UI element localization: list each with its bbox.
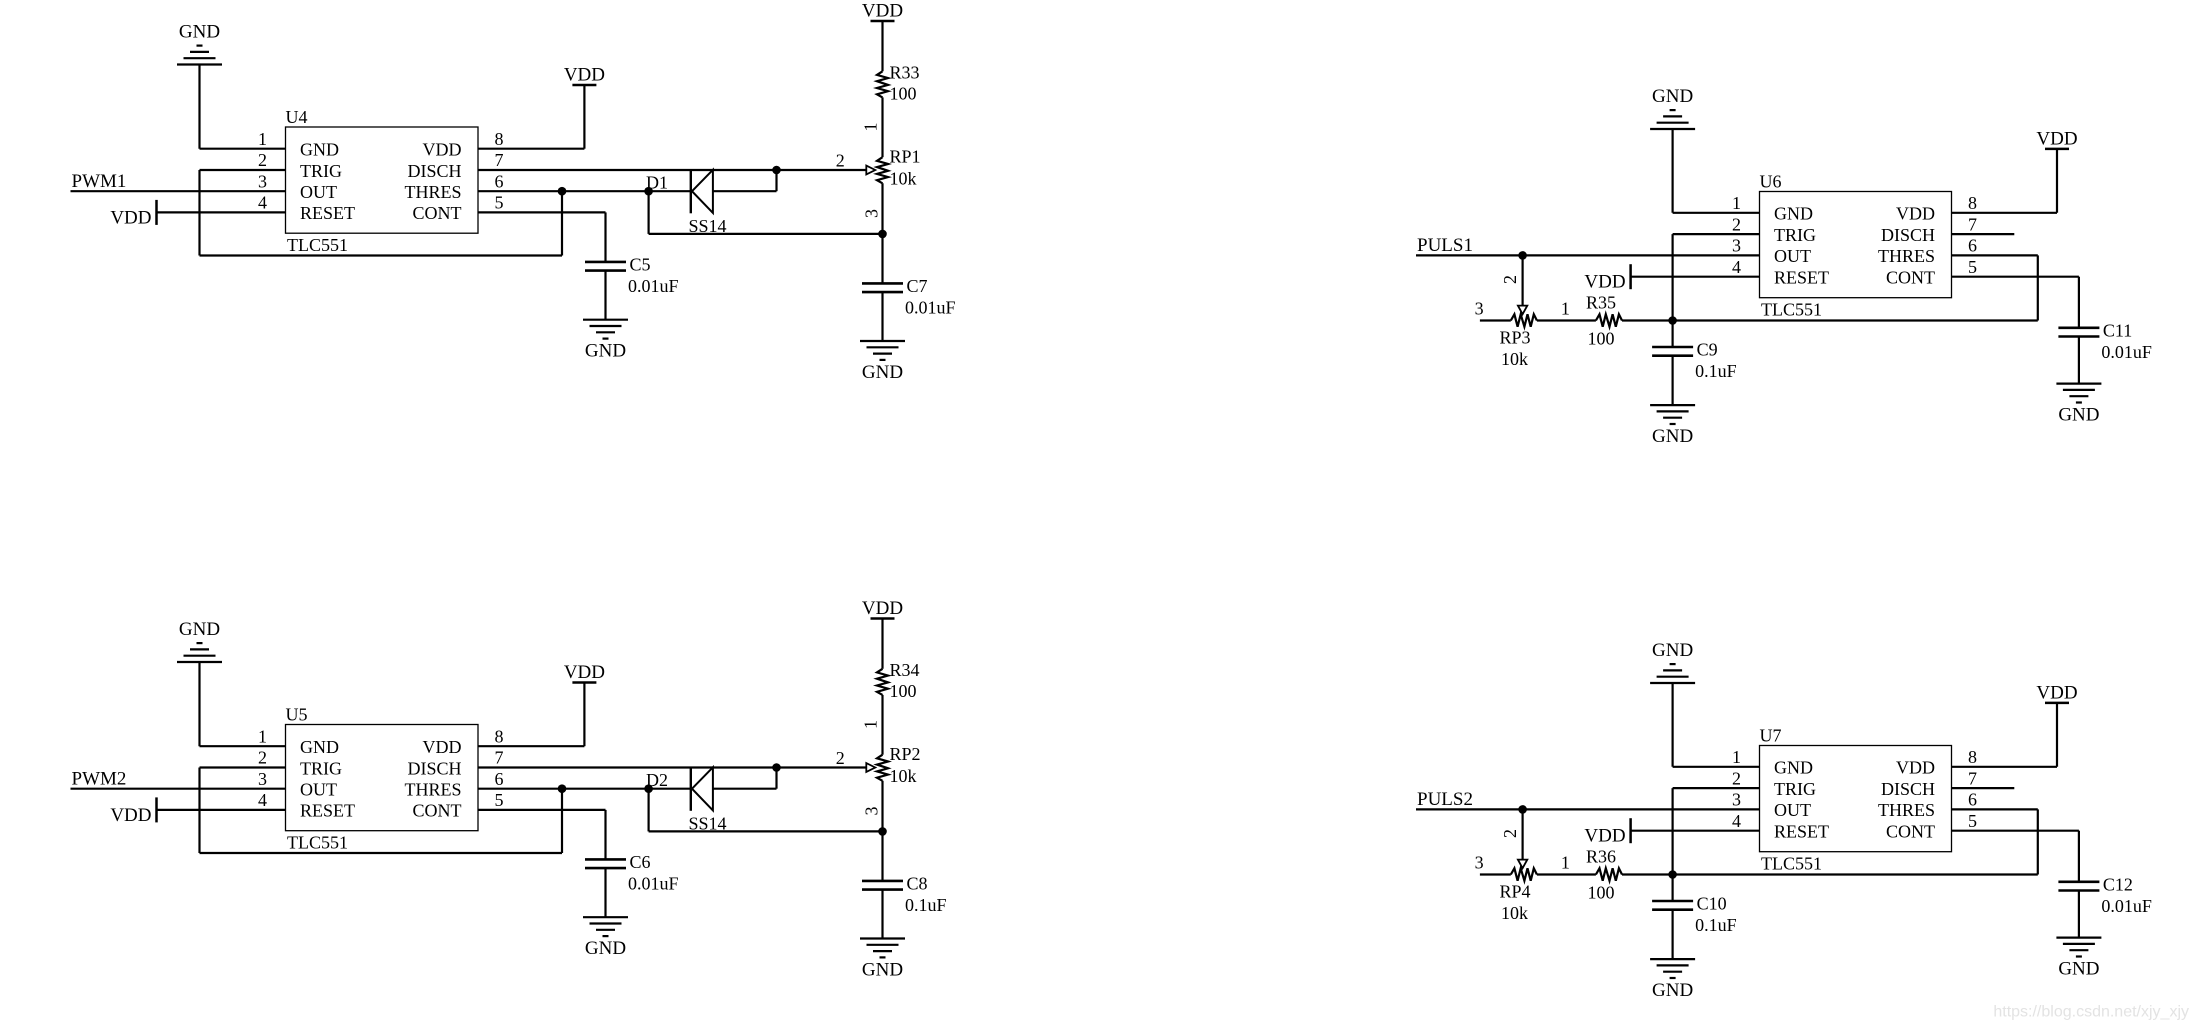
svg-text:PWM2: PWM2 <box>72 769 127 790</box>
wire RP4 to R36 <box>1537 873 1596 875</box>
junction DISCH node <box>772 166 781 175</box>
potentiometer RP2 10k <box>877 744 921 786</box>
wire RP1 to C7 <box>881 183 883 283</box>
wire RC node to C9 <box>1671 321 1673 348</box>
svg-text:THRES: THRES <box>1878 246 1935 266</box>
svg-text:RESET: RESET <box>1774 268 1829 288</box>
wire U5 VDD pin 8 <box>478 745 584 747</box>
svg-text:0.01uF: 0.01uF <box>628 276 679 296</box>
wire R36 to THRES loop <box>1622 873 2038 875</box>
wire U7 DISCH pin 7 stub <box>1952 787 2015 789</box>
svg-text:0.1uF: 0.1uF <box>1695 361 1737 381</box>
resistor R34 100 <box>877 660 920 701</box>
power VDD (at U6 RESET) <box>1584 264 1630 293</box>
svg-text:3: 3 <box>862 209 882 218</box>
svg-text:TRIG: TRIG <box>1774 779 1816 799</box>
svg-text:1: 1 <box>258 129 267 149</box>
svg-text:8: 8 <box>1968 747 1977 767</box>
wire TRIG loop vertical <box>198 768 200 854</box>
svg-text:VDD: VDD <box>564 662 605 683</box>
svg-text:GND: GND <box>585 938 626 959</box>
svg-text:GND: GND <box>2058 959 2099 980</box>
svg-text:GND: GND <box>585 341 626 362</box>
svg-text:RESET: RESET <box>1774 822 1829 842</box>
svg-text:GND: GND <box>179 619 220 640</box>
svg-text:1: 1 <box>1561 298 1570 318</box>
junction diode D2 anode node <box>644 784 653 793</box>
svg-text:PWM1: PWM1 <box>72 171 127 192</box>
wire VDD (at U5 RESET) to pin <box>157 809 286 811</box>
svg-text:VDD: VDD <box>110 207 151 228</box>
ground GND (above U7) <box>1650 640 1695 767</box>
wire C12 to ground <box>2078 891 2080 938</box>
RP3 wiper arrow <box>1518 306 1527 315</box>
svg-text:GND: GND <box>2058 405 2099 426</box>
wire U4 TRIG pin 2 <box>200 169 286 171</box>
svg-text:100: 100 <box>890 681 917 701</box>
svg-text:OUT: OUT <box>1774 246 1811 266</box>
svg-text:U4: U4 <box>286 107 308 127</box>
svg-text:R36: R36 <box>1586 847 1616 867</box>
svg-text:RESET: RESET <box>300 203 355 223</box>
wire C6 to ground <box>604 868 606 917</box>
svg-text:GND: GND <box>1652 980 1693 1001</box>
svg-text:100: 100 <box>890 84 917 104</box>
svg-text:VDD: VDD <box>1896 758 1935 778</box>
wire U6 THRES pin 6 <box>1952 254 2038 256</box>
wire TRIG loop to THRES <box>561 191 563 255</box>
junction RC node <box>1668 870 1677 879</box>
svg-text:VDD: VDD <box>2036 682 2077 703</box>
wire GND to U5 pin 1 <box>200 745 286 747</box>
wire U4 CONT pin 5 <box>478 211 606 213</box>
svg-text:U5: U5 <box>286 705 308 725</box>
svg-text:8: 8 <box>495 129 504 149</box>
svg-text:VDD: VDD <box>862 598 903 619</box>
wire D2 cathode node down <box>647 789 649 832</box>
svg-text:C11: C11 <box>2103 320 2132 340</box>
svg-text:8: 8 <box>1968 193 1977 213</box>
capacitor C7 0.01uF <box>862 276 956 318</box>
wire U6 VDD pin 8 <box>1952 212 2058 214</box>
resistor RP3 10k <box>1500 314 1537 369</box>
svg-text:GND: GND <box>1774 758 1813 778</box>
svg-text:2: 2 <box>1500 829 1520 838</box>
wire U5 CONT pin 5 <box>478 809 606 811</box>
wire U7 TRIG pin 2 <box>1673 787 1760 789</box>
wire RC node to C10 <box>1671 875 1673 902</box>
wire PWM2 to U5 OUT pin 3 <box>71 788 286 790</box>
svg-text:C9: C9 <box>1697 340 1718 360</box>
wire TRIG loop vertical <box>198 170 200 256</box>
svg-text:6: 6 <box>495 769 504 789</box>
svg-text:2: 2 <box>258 748 267 768</box>
svg-text:TRIG: TRIG <box>1774 225 1816 245</box>
svg-text:C6: C6 <box>630 852 651 872</box>
power VDD (at U7 pin 8) <box>2036 682 2077 766</box>
svg-text:2: 2 <box>1732 214 1741 234</box>
svg-text:3: 3 <box>862 807 882 816</box>
svg-text:8: 8 <box>495 726 504 746</box>
svg-text:7: 7 <box>1968 768 1977 788</box>
svg-text:4: 4 <box>1732 257 1741 277</box>
junction diode D1 anode node <box>644 187 653 196</box>
svg-text:TRIG: TRIG <box>300 161 342 181</box>
capacitor C9 0.1uF <box>1652 340 1737 382</box>
capacitor C11 0.01uF <box>2058 320 2152 362</box>
svg-text:100: 100 <box>1588 883 1615 903</box>
wire D1 anode to DISCH net <box>713 190 777 192</box>
wire THRES loop vertical <box>2037 809 2039 874</box>
svg-text:TLC551: TLC551 <box>287 235 348 255</box>
svg-text:3: 3 <box>258 171 267 191</box>
svg-text:U6: U6 <box>1760 172 1782 192</box>
svg-text:2: 2 <box>1732 768 1741 788</box>
svg-text:1: 1 <box>1732 747 1741 767</box>
power VDD (above R33) <box>862 1 903 72</box>
svg-text:GND: GND <box>300 140 339 160</box>
svg-text:GND: GND <box>1774 204 1813 224</box>
svg-text:10k: 10k <box>890 169 917 189</box>
junction PULS2 to RP4 wiper <box>1518 805 1527 814</box>
wire TRIG vertical to RC node <box>1671 788 1673 874</box>
wire RP3 pin 3 <box>1480 319 1511 321</box>
wire U7 CONT pin 5 <box>1952 830 2079 832</box>
svg-text:C7: C7 <box>907 276 928 296</box>
wire U6 CONT pin 5 <box>1952 276 2079 278</box>
svg-text:RP2: RP2 <box>890 744 921 764</box>
svg-text:CONT: CONT <box>413 203 462 223</box>
wire CONT down to C12 <box>2078 831 2080 882</box>
svg-text:3: 3 <box>1475 298 1484 318</box>
svg-text:C8: C8 <box>907 873 928 893</box>
wire GND to U7 pin 1 <box>1673 766 1760 768</box>
svg-text:3: 3 <box>1475 852 1484 872</box>
svg-text:C5: C5 <box>630 254 651 274</box>
power VDD (at U4 pin 8) <box>564 65 605 149</box>
resistor R36 100 <box>1586 847 1622 903</box>
wire R35 to THRES loop <box>1622 319 2038 321</box>
svg-text:VDD: VDD <box>1896 204 1935 224</box>
svg-text:2: 2 <box>258 150 267 170</box>
svg-text:RESET: RESET <box>300 801 355 821</box>
wire TRIG loop bottom <box>200 852 563 854</box>
svg-text:https://blog.csdn.net/xjy_xjy: https://blog.csdn.net/xjy_xjy <box>1993 1004 2189 1021</box>
resistor RP4 10k <box>1500 868 1537 923</box>
svg-text:THRES: THRES <box>404 780 461 800</box>
svg-text:0.01uF: 0.01uF <box>2101 896 2152 916</box>
svg-text:PULS2: PULS2 <box>1417 789 1473 810</box>
wire R34 to RP2 <box>881 695 883 755</box>
svg-text:U7: U7 <box>1760 726 1782 746</box>
svg-text:3: 3 <box>1732 236 1741 256</box>
svg-text:VDD: VDD <box>1584 272 1625 293</box>
svg-text:5: 5 <box>1968 811 1977 831</box>
capacitor C12 0.01uF <box>2058 874 2152 916</box>
svg-text:GND: GND <box>1652 640 1693 661</box>
wire C8 to ground <box>881 890 883 939</box>
RP1 wiper arrow <box>866 166 875 175</box>
svg-text:PULS1: PULS1 <box>1417 235 1473 256</box>
wire U5 TRIG pin 2 <box>200 766 286 768</box>
svg-text:5: 5 <box>495 790 504 810</box>
svg-text:D1: D1 <box>646 173 668 193</box>
diode D2 SS14 <box>646 767 727 834</box>
svg-text:GND: GND <box>1652 86 1693 107</box>
diode D1 SS14 <box>646 169 727 236</box>
svg-text:3: 3 <box>1732 790 1741 810</box>
wire RP4 wiper vertical <box>1521 809 1523 861</box>
svg-text:10k: 10k <box>1501 903 1528 923</box>
wire U7 VDD pin 8 <box>1952 766 2058 768</box>
wire D1 cathode node down <box>647 191 649 234</box>
capacitor C6 0.01uF <box>585 852 679 894</box>
svg-text:1: 1 <box>860 720 880 729</box>
junction THRES node <box>558 187 567 196</box>
capacitor C8 0.1uF <box>862 873 947 915</box>
wire PULS1 to U6 OUT pin 3 <box>1416 254 1760 256</box>
svg-text:GND: GND <box>300 737 339 757</box>
svg-text:VDD: VDD <box>862 1 903 22</box>
RP2 wiper arrow <box>866 763 875 772</box>
wire C5 to ground <box>604 271 606 320</box>
svg-text:1: 1 <box>1732 193 1741 213</box>
svg-text:THRES: THRES <box>404 182 461 202</box>
svg-text:GND: GND <box>179 22 220 43</box>
junction DISCH node <box>772 763 781 772</box>
svg-text:7: 7 <box>495 150 504 170</box>
svg-text:7: 7 <box>495 748 504 768</box>
svg-text:2: 2 <box>1500 275 1520 284</box>
svg-text:6: 6 <box>495 171 504 191</box>
svg-text:0.1uF: 0.1uF <box>905 895 947 915</box>
power VDD (at U5 RESET) <box>110 797 156 826</box>
svg-text:TLC551: TLC551 <box>287 833 348 853</box>
wire CONT down to C6 <box>604 810 606 860</box>
wire RP4 pin 3 <box>1480 873 1511 875</box>
svg-text:2: 2 <box>836 748 845 768</box>
wire PWM1 to U4 OUT pin 3 <box>71 190 286 192</box>
wire THRES loop vertical <box>2037 255 2039 320</box>
svg-text:C10: C10 <box>1697 894 1727 914</box>
ground GND (below C6) <box>583 917 628 959</box>
junction PULS1 to RP3 wiper <box>1518 251 1527 260</box>
wire GND to U4 pin 1 <box>200 148 286 150</box>
svg-text:6: 6 <box>1968 236 1977 256</box>
wire R33 to RP1 <box>881 97 883 157</box>
wire RP3 to R35 <box>1537 319 1596 321</box>
RP4 wiper arrow <box>1518 860 1527 869</box>
power VDD (at U7 RESET) <box>1584 818 1630 847</box>
ground GND (above U5) <box>177 619 222 746</box>
svg-text:DISCH: DISCH <box>1881 779 1935 799</box>
wire U4 THRES pin 6 <box>478 190 691 192</box>
wire TRIG loop bottom <box>200 254 563 256</box>
svg-text:0.1uF: 0.1uF <box>1695 915 1737 935</box>
junction RP1 pin 3 node <box>878 230 887 239</box>
IC U6 TLC551 timer <box>1760 192 1952 298</box>
wire TRIG vertical to RC node <box>1671 234 1673 320</box>
svg-text:R35: R35 <box>1586 293 1616 313</box>
ground GND (below C11) <box>2056 384 2101 426</box>
wire RP2 to C8 <box>881 781 883 881</box>
ground GND (above U6) <box>1650 86 1695 213</box>
wire U5 DISCH pin 7 to RP2 wiper <box>478 766 866 768</box>
svg-text:TRIG: TRIG <box>300 758 342 778</box>
wire CONT down to C5 <box>604 212 606 262</box>
svg-text:R33: R33 <box>890 63 920 83</box>
svg-text:7: 7 <box>1968 214 1977 234</box>
wire C11 to ground <box>2078 337 2080 384</box>
svg-text:6: 6 <box>1968 790 1977 810</box>
svg-text:1: 1 <box>258 726 267 746</box>
wire cathode node to RP1 pin 3 <box>649 233 883 235</box>
svg-text:CONT: CONT <box>1886 822 1935 842</box>
power VDD (at U5 pin 8) <box>564 662 605 746</box>
IC U5 TLC551 timer <box>286 725 479 831</box>
svg-text:CONT: CONT <box>1886 268 1935 288</box>
ground GND (below C8) <box>860 939 905 981</box>
IC U4 TLC551 timer <box>286 127 479 233</box>
svg-text:THRES: THRES <box>1878 800 1935 820</box>
svg-text:0.01uF: 0.01uF <box>2101 342 2152 362</box>
svg-text:RP4: RP4 <box>1500 882 1531 902</box>
ground GND (below C5) <box>583 320 628 362</box>
svg-text:OUT: OUT <box>1774 800 1811 820</box>
power VDD (at U4 RESET) <box>110 200 156 229</box>
wire C10 to ground <box>1671 910 1673 959</box>
svg-text:C12: C12 <box>2103 874 2133 894</box>
svg-text:OUT: OUT <box>300 182 337 202</box>
junction RC node <box>1668 316 1677 325</box>
wire VDD (at U6 RESET) to pin <box>1631 276 1760 278</box>
svg-text:TLC551: TLC551 <box>1761 854 1822 874</box>
ground GND (below C9) <box>1650 405 1695 447</box>
wire VDD (at U4 RESET) to pin <box>157 211 286 213</box>
svg-text:1: 1 <box>860 123 880 132</box>
ground GND (below C10) <box>1650 959 1695 1001</box>
wire CONT down to C11 <box>2078 277 2080 328</box>
svg-text:OUT: OUT <box>300 780 337 800</box>
wire D2 anode to DISCH net <box>713 788 777 790</box>
svg-text:VDD: VDD <box>423 140 462 160</box>
svg-text:100: 100 <box>1588 329 1615 349</box>
svg-text:0.01uF: 0.01uF <box>905 297 956 317</box>
svg-text:RP1: RP1 <box>890 147 921 167</box>
svg-text:DISCH: DISCH <box>407 161 461 181</box>
capacitor C5 0.01uF <box>585 254 679 296</box>
svg-text:DISCH: DISCH <box>407 758 461 778</box>
wire GND to U6 pin 1 <box>1673 212 1760 214</box>
wire VDD (at U7 RESET) to pin <box>1631 830 1760 832</box>
svg-text:D2: D2 <box>646 770 668 790</box>
svg-text:SS14: SS14 <box>689 813 727 833</box>
svg-text:5: 5 <box>1968 257 1977 277</box>
wire U6 DISCH pin 7 stub <box>1952 233 2015 235</box>
ground GND (above U4) <box>177 22 222 149</box>
power VDD (at U6 pin 8) <box>2036 128 2077 212</box>
svg-text:GND: GND <box>1652 426 1693 447</box>
wire U4 DISCH pin 7 to RP1 wiper <box>478 169 866 171</box>
ground GND (below C12) <box>2056 938 2101 980</box>
svg-text:VDD: VDD <box>2036 128 2077 149</box>
junction THRES node <box>558 784 567 793</box>
svg-text:5: 5 <box>495 193 504 213</box>
svg-text:3: 3 <box>258 769 267 789</box>
wire PULS2 to U7 OUT pin 3 <box>1416 808 1760 810</box>
svg-text:DISCH: DISCH <box>1881 225 1935 245</box>
wire cathode node to RP2 pin 3 <box>649 830 883 832</box>
svg-text:VDD: VDD <box>423 737 462 757</box>
svg-text:VDD: VDD <box>1584 826 1625 847</box>
svg-text:GND: GND <box>862 960 903 981</box>
svg-text:RP3: RP3 <box>1500 328 1531 348</box>
svg-text:VDD: VDD <box>110 805 151 826</box>
svg-text:GND: GND <box>862 362 903 383</box>
power VDD (above R34) <box>862 598 903 669</box>
svg-text:4: 4 <box>258 193 267 213</box>
wire TRIG loop to THRES <box>561 789 563 853</box>
junction RP2 pin 3 node <box>878 827 887 836</box>
svg-text:0.01uF: 0.01uF <box>628 873 679 893</box>
wire U7 THRES pin 6 <box>1952 808 2038 810</box>
IC U7 TLC551 timer <box>1760 746 1952 852</box>
resistor R35 100 <box>1586 293 1622 349</box>
wire RP3 wiper vertical <box>1521 255 1523 307</box>
resistor R33 100 <box>877 63 920 104</box>
svg-text:1: 1 <box>1561 852 1570 872</box>
potentiometer RP1 10k <box>877 147 921 189</box>
wire C7 to ground <box>881 292 883 341</box>
svg-text:10k: 10k <box>890 766 917 786</box>
svg-text:VDD: VDD <box>564 65 605 86</box>
svg-text:4: 4 <box>258 790 267 810</box>
ground GND (below C7) <box>860 341 905 383</box>
wire U5 THRES pin 6 <box>478 788 691 790</box>
wire U6 TRIG pin 2 <box>1673 233 1760 235</box>
svg-text:TLC551: TLC551 <box>1761 300 1822 320</box>
wire C9 to ground <box>1671 356 1673 405</box>
wire U4 VDD pin 8 <box>478 148 584 150</box>
svg-text:4: 4 <box>1732 811 1741 831</box>
svg-text:R34: R34 <box>890 660 920 680</box>
svg-text:10k: 10k <box>1501 349 1528 369</box>
svg-text:CONT: CONT <box>413 801 462 821</box>
capacitor C10 0.1uF <box>1652 894 1737 936</box>
svg-text:2: 2 <box>836 150 845 170</box>
